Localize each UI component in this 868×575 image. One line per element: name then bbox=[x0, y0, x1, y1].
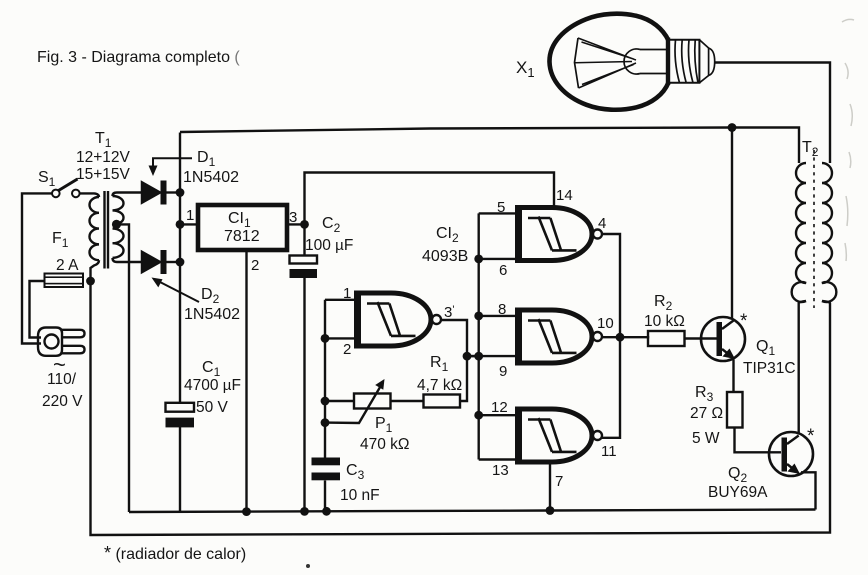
svg-text:4700 µF: 4700 µF bbox=[184, 377, 241, 394]
junction ground C2 bbox=[300, 507, 309, 516]
wire T1 primary bottom to fuse junction bbox=[91, 260, 100, 281]
svg-text:12: 12 bbox=[491, 399, 508, 416]
wire Q1 collector riser bbox=[731, 128, 733, 320]
regulator CI1 7812 bbox=[198, 205, 287, 250]
svg-text:4: 4 bbox=[598, 215, 606, 232]
wire ground rail bbox=[129, 510, 816, 513]
svg-text:TIP31C: TIP31C bbox=[743, 360, 796, 377]
svg-text:*: * bbox=[807, 426, 815, 447]
label T1 voltages bbox=[76, 149, 131, 183]
wire R2 to Q1 base bbox=[685, 337, 718, 339]
label R3 value bbox=[690, 405, 723, 447]
junction input rail pin6 bbox=[474, 255, 483, 264]
gate D (pins 12,13,11) bbox=[516, 407, 602, 465]
stray mark speck 2 bbox=[842, 19, 854, 261]
node T1 center tap bbox=[112, 220, 121, 229]
junction ground C3 bbox=[322, 507, 331, 516]
junction P1 left bbox=[321, 397, 330, 406]
svg-text:6: 6 bbox=[499, 262, 507, 279]
wire CI1 pin 3 bbox=[287, 223, 305, 225]
wire C2 branch to ground bbox=[303, 224, 305, 511]
label D1 with leader arrow bbox=[149, 149, 240, 186]
label mains voltage bbox=[42, 352, 83, 410]
wire pin 12 stub bbox=[479, 414, 516, 416]
potentiometer P1 bbox=[325, 379, 391, 423]
svg-text:27 Ω: 27 Ω bbox=[690, 405, 723, 422]
wire P1 to R1 bbox=[391, 400, 424, 402]
svg-text:4,7 kΩ: 4,7 kΩ bbox=[417, 377, 462, 394]
wire pin 8 stub bbox=[479, 315, 516, 317]
wire gate A pin 2 stub bbox=[325, 337, 355, 339]
svg-text:11: 11 bbox=[601, 443, 617, 460]
junction ground pin7 bbox=[546, 506, 555, 515]
wire output return loop (fuse junction down, bottom rail, up to T2) bbox=[91, 281, 831, 535]
wire pin 7 to ground bbox=[549, 465, 551, 511]
stray mark speck bbox=[306, 564, 310, 568]
diode D1 bbox=[142, 181, 167, 205]
label C1 value bbox=[184, 377, 241, 416]
wire gate A pin 1 stub bbox=[325, 299, 355, 301]
svg-text:10: 10 bbox=[597, 315, 614, 332]
svg-text:*: * bbox=[740, 311, 748, 332]
op-amp gate A (pins 1,2,3) bbox=[355, 291, 441, 349]
svg-text:1N5402: 1N5402 bbox=[184, 306, 240, 323]
wire D1 cathode to bus bbox=[167, 191, 181, 193]
transformer T2 bbox=[792, 150, 837, 308]
fuse F1 bbox=[45, 274, 84, 288]
wire CI1 pin 1 bbox=[180, 223, 198, 225]
svg-text:5: 5 bbox=[497, 199, 505, 216]
svg-text:2: 2 bbox=[251, 257, 259, 274]
label D2 with leader arrow bbox=[152, 278, 241, 324]
junction input rail pin9 bbox=[474, 352, 483, 361]
svg-text:50 V: 50 V bbox=[196, 399, 229, 416]
wire top +V rail bbox=[180, 128, 799, 164]
wire Q2 collector riser to T2 bbox=[799, 301, 806, 434]
wire output bus pins 4 10 11 bbox=[601, 234, 620, 438]
junction input rail pin12 bbox=[474, 411, 483, 420]
svg-text:BUY69A: BUY69A bbox=[708, 484, 768, 501]
wire pin 5 stub bbox=[479, 212, 516, 214]
svg-text:2 A: 2 A bbox=[56, 257, 79, 274]
svg-text:* (radiador de calor): * (radiador de calor) bbox=[104, 543, 246, 563]
capacitor C1 bbox=[166, 403, 195, 428]
svg-text:7812: 7812 bbox=[224, 228, 260, 245]
wire lamp X1 to T2 right winding bbox=[715, 63, 831, 164]
svg-text:7: 7 bbox=[555, 473, 563, 490]
gate C (pins 8,9,10) bbox=[516, 308, 602, 366]
wire S1 to T1 primary top bbox=[80, 193, 100, 197]
junction input rail pin8 bbox=[474, 312, 483, 321]
junction D1 cathode/bus bbox=[176, 188, 185, 197]
wire T1 secondary bottom to diode D2 bbox=[113, 258, 142, 262]
transformer T1 bbox=[89, 191, 123, 269]
junction feedback/R1 riser bbox=[463, 352, 472, 361]
svg-text:3: 3 bbox=[289, 209, 297, 226]
junction output bus pin10 bbox=[616, 333, 625, 342]
junction ground CI1 pin2 bbox=[242, 507, 251, 516]
wire pin 13 stub bbox=[479, 458, 516, 460]
junction bus/CI1 pin1 bbox=[176, 220, 185, 229]
junction fuse/primary bbox=[86, 277, 95, 286]
lamp X1 bbox=[549, 14, 714, 110]
svg-text:220 V: 220 V bbox=[42, 393, 83, 410]
svg-text:100 µF: 100 µF bbox=[305, 237, 353, 254]
svg-text:8: 8 bbox=[498, 301, 506, 318]
wire gate A input rail bbox=[324, 300, 326, 512]
resistor R1 bbox=[424, 395, 461, 408]
junction CI1 pin3/C2 bbox=[300, 220, 309, 229]
wire CI1 pin 2 to ground bbox=[245, 250, 247, 512]
wire output to R2 bbox=[620, 337, 648, 338]
switch S1 bbox=[52, 179, 80, 197]
capacitor C2 bbox=[290, 256, 318, 279]
wire +12V to pin 14 bbox=[305, 173, 555, 225]
svg-text:1N5402: 1N5402 bbox=[183, 169, 239, 186]
resistor R2 bbox=[648, 331, 685, 346]
svg-text:13: 13 bbox=[492, 462, 509, 479]
svg-text:10 kΩ: 10 kΩ bbox=[644, 313, 685, 330]
wire pin 6 stub bbox=[479, 258, 516, 260]
wire R1 right riser to gate A output bbox=[437, 320, 468, 401]
wire fuse F1 left lead to plug bbox=[30, 281, 46, 338]
diode D2 bbox=[142, 250, 167, 274]
resistor R3 bbox=[727, 392, 743, 428]
gate B (pins 5,6,4) bbox=[516, 205, 602, 263]
transistor Q2 bbox=[769, 432, 813, 476]
wire Q2 emitter to ground rail bbox=[801, 472, 816, 509]
wire feedback node to input rail bbox=[467, 355, 479, 357]
wire mains left rail from S1 to plug bbox=[22, 193, 52, 343]
wire T1 secondary top to diode D1 bbox=[113, 193, 142, 197]
svg-text:1: 1 bbox=[343, 285, 351, 302]
wire pin 9 stub bbox=[467, 355, 516, 357]
svg-text:110/: 110/ bbox=[47, 371, 77, 388]
wire D2 cathode to bus bbox=[167, 261, 181, 263]
junction top rail Q1 collector bbox=[728, 123, 737, 132]
junction D2 cathode/bus bbox=[176, 258, 185, 267]
transistor Q1 bbox=[701, 317, 745, 361]
svg-text:2: 2 bbox=[343, 341, 351, 358]
junction gate A pin2 bbox=[321, 334, 330, 343]
svg-text:Fig. 3 - Diagrama completo (: Fig. 3 - Diagrama completo ( bbox=[37, 49, 240, 66]
junction P1 wiper bbox=[321, 418, 330, 427]
wire Q1 emitter to R3 bbox=[732, 360, 734, 393]
svg-text:5 W: 5 W bbox=[692, 430, 720, 447]
svg-text:4093B: 4093B bbox=[422, 248, 468, 265]
svg-text:1: 1 bbox=[186, 207, 194, 224]
svg-text:15+15V: 15+15V bbox=[76, 166, 131, 183]
capacitor C3 bbox=[312, 458, 341, 481]
wire T1 center tap down to ground rail bbox=[114, 224, 129, 512]
wire P1 left lead bbox=[325, 400, 354, 402]
svg-text:12+12V: 12+12V bbox=[76, 149, 131, 166]
svg-text:470 kΩ: 470 kΩ bbox=[360, 436, 410, 453]
svg-text:10 nF: 10 nF bbox=[340, 487, 380, 504]
mains plug bbox=[38, 328, 85, 356]
wire rectifier bus vertical bbox=[179, 133, 181, 513]
svg-text:14: 14 bbox=[556, 187, 573, 204]
wire R3 to Q2 base bbox=[735, 428, 782, 453]
wire CI2 input rail bbox=[478, 213, 480, 459]
svg-text:9: 9 bbox=[499, 363, 507, 380]
